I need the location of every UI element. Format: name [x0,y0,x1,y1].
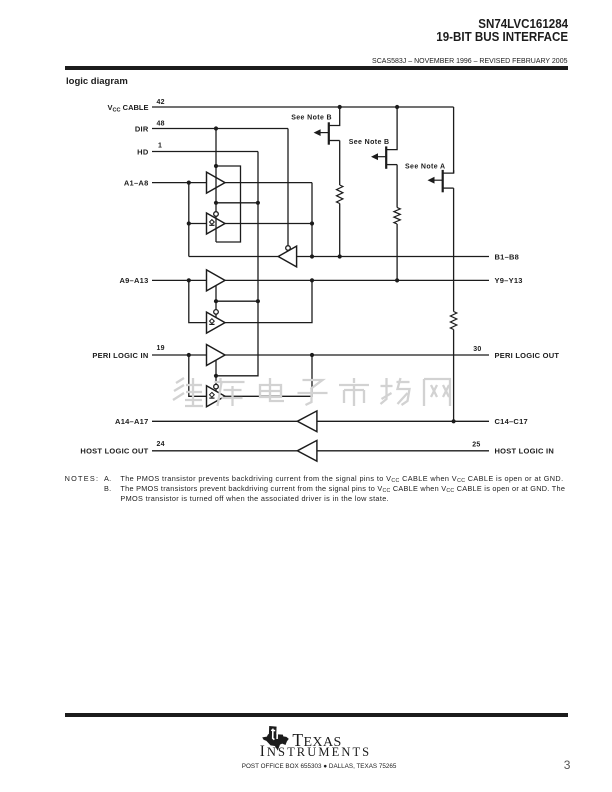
transistor Q1 source lead [329,107,340,126]
section title: logic diagram [66,76,128,87]
enable bubble on inverter U2 [286,246,291,251]
node Vcc/Q2 [395,105,399,109]
enable bubble on schmitt U3 [214,212,219,217]
wire row-1 control loop (right side box) [216,166,241,242]
svg-text:B1–B8: B1–B8 [495,252,520,261]
inverter U8 (C14-C17 receiver) [297,411,317,432]
node Y line / U5 output [310,278,314,282]
svg-text:VCC CABLE: VCC CABLE [107,103,148,114]
wire row-2 enable stub through schmitt U5 bubble [215,286,217,318]
transistor Q2 drain lead [386,164,397,166]
wire DIR drop to inverter U2 enable bubble [287,129,289,246]
transistor Q2 source lead [386,107,397,150]
node U3 output / B drop [310,221,314,225]
wire Q3 drain down to resistor R3 [453,188,455,311]
svg-text:HOST LOGIC IN: HOST LOGIC IN [495,447,555,456]
wire row-1 enable branch to HD bus [216,202,258,204]
svg-text:C14–C17: C14–C17 [495,417,528,426]
wire schmitt U5 input from A9-A13 [189,280,207,322]
node R3 / C line [452,419,456,423]
page number [564,758,571,772]
bus-hold mark in U5 [210,319,215,324]
wire buffer U6 output / PERI LOGIC OUT line (pin 30) [225,354,489,356]
resistor R1 [337,185,343,204]
wire A1-A8 input [152,182,207,184]
node row1 enable on HD bus [256,201,260,205]
bus-hold mark in U7 [210,392,215,397]
svg-text:25: 25 [472,441,480,448]
svg-text:A9–A13: A9–A13 [119,276,148,285]
svg-text:HOST LOGIC OUT: HOST LOGIC OUT [80,447,148,456]
svg-text:24: 24 [157,441,165,448]
schmitt feedback buffer U3 [207,213,226,234]
wire schmitt U7 output up to PERI line [225,355,312,396]
wire C14-C17 line [317,420,489,422]
notes paragraph [65,474,100,483]
buffer U1 (A1-A8 driver) [207,172,226,193]
node row1 enable [214,201,218,205]
node DIR branch [214,126,218,130]
watermark (simplified CJK glyphs) [173,378,203,406]
svg-text:See Note B: See Note B [349,139,390,146]
wire buffer U4 output / Y9-Y13 line [225,279,489,281]
wire vertical drop from U1 output to B1-B8 line [311,183,313,257]
node R1 / B line [338,254,342,258]
enable bubble on schmitt U7 [214,384,219,389]
wire A9-A13 input [152,279,207,281]
wire buffer U1 output to B drop [225,182,312,184]
node row2 enable on HD bus [256,299,260,303]
svg-text:See Note B: See Note B [291,115,332,122]
inverter U9 (HOST LOGIC receiver) [297,440,317,461]
node PERI line / U7 output [310,353,314,357]
wire R3 to C14-C17 line [453,330,455,422]
svg-text:See Note A: See Note A [405,164,446,171]
schmitt feedback buffer U5 [207,312,226,333]
wire B1-B8 line [297,256,489,258]
wire inverter U2 output to feedback vertical [189,256,278,258]
inverter U2 (B-to-A receiver) [278,246,296,267]
transistor Q3 source lead [443,170,454,173]
node PERI input [187,353,191,357]
transistor Q2 channel bar [385,146,387,168]
buffer U6 (PERI LOGIC driver) [207,345,226,366]
transistor Q1 gate arrow [317,132,329,134]
wire R1 to B1-B8 line [339,204,341,257]
svg-text:PERI LOGIC IN: PERI LOGIC IN [92,351,148,360]
svg-text:1: 1 [158,142,162,149]
bus-hold mark in U3 [210,220,215,225]
header document code line [372,58,567,65]
node A1-A8 input [187,181,191,185]
wire Q2 drain to resistor R2 [396,165,398,208]
enable bubble on schmitt U5 [214,310,219,315]
svg-text:HD: HD [137,147,149,156]
header rule bar [65,66,568,71]
node row2 enable [214,299,218,303]
wire DIR (pin 48) [152,128,288,130]
node A9-A13 input [187,278,191,282]
wire Vcc CABLE rail (pin 42) [152,106,454,108]
transistor Q1 channel bar [328,122,330,144]
transistor Q1 drain lead [329,140,340,142]
wire Vcc corner drop to Q3 [453,107,455,173]
TI logo (Texas map with ti) [262,726,289,751]
wire DIR control drop through row-1 buffers [215,129,217,243]
schmitt feedback buffer U7 [207,386,226,407]
footer rule bar [65,713,568,717]
transistor Q3 channel bar [442,170,444,192]
wire A-side feedback vertical (A line to inverter U2 output) [188,183,190,257]
wire HOST LOGIC OUT (pin 24) to inverter U9 [152,450,297,452]
svg-text:PERI LOGIC OUT: PERI LOGIC OUT [495,351,560,360]
transistor Q3 gate arrow [431,179,443,181]
svg-text:42: 42 [157,99,165,106]
node B line / drop [310,254,314,258]
buffer U4 (A9-A13 driver) [207,270,226,291]
svg-text:Y9–Y13: Y9–Y13 [495,276,523,285]
wire row-2 enable branch to HD bus [216,300,258,302]
wire PERI LOGIC IN (pin 19) [152,354,207,356]
wire HOST LOGIC IN line (pin 25) [317,450,489,452]
svg-text:A14–A17: A14–A17 [115,417,148,426]
wire HD (pin 1) [152,151,258,153]
wire schmitt U3 output [225,223,312,225]
node U3 input [187,221,191,225]
wire schmitt U7 input from PERI line [189,355,207,396]
transistor Q3 drain lead [443,187,454,189]
node R2 / Y line [395,278,399,282]
node Vcc/Q1 [338,105,342,109]
svg-text:48: 48 [157,121,165,128]
header part numbers [437,17,569,43]
svg-text:A1–A8: A1–A8 [124,178,149,187]
footer address [242,763,397,770]
wire R2 to Y9-Y13 line [396,224,398,280]
node row3 enable [214,374,218,378]
wire schmitt U5 output up to Y line [225,280,312,322]
wire A14-A17 line to inverter U8 [152,420,297,422]
svg-text:19: 19 [157,345,165,352]
wire schmitt U3 input [189,223,207,225]
svg-text:DIR: DIR [135,124,149,133]
transistor Q2 gate arrow [375,156,387,158]
wire Q1 drain to resistor R1 [339,141,341,186]
svg-text:30: 30 [473,346,481,353]
resistor R3 [450,312,456,330]
resistor R2 [394,208,400,225]
footer wordmark [292,730,341,751]
wire HD enable bus vertical, ends at row-3 bubble branch [216,152,258,376]
wire row-3 enable stub through schmitt U7 bubble [215,360,217,391]
node row1 loop top [214,164,218,168]
